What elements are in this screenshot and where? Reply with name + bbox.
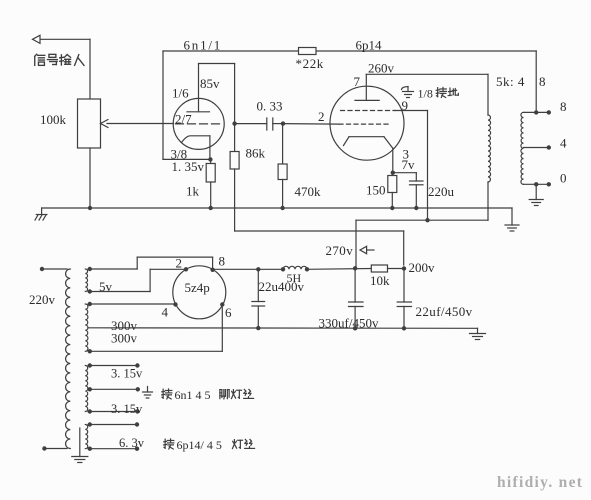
choke L1 5H — [281, 266, 309, 271]
ground chassis left — [35, 208, 47, 220]
pin label 9 — [402, 98, 409, 113]
node 150 ground — [390, 206, 394, 210]
svg-text:4: 4 — [560, 136, 567, 151]
svg-text:3. 15v: 3. 15v — [111, 402, 143, 416]
svg-text:260v: 260v — [368, 61, 395, 76]
pin 2 dot — [184, 267, 188, 271]
tube V2 control grid (dashed) — [339, 123, 389, 125]
wire 6.3v top — [88, 422, 140, 426]
wire screen to B+ line — [395, 111, 428, 221]
label 330uf/450v — [319, 316, 379, 331]
label 300v lower — [111, 331, 138, 346]
svg-text:6: 6 — [225, 305, 232, 320]
label 7v — [402, 157, 416, 172]
pin label 3/8 — [171, 147, 188, 162]
pin label 2 — [318, 109, 325, 124]
wire NFB to cathode — [163, 158, 210, 160]
potentiometer RP1 100k — [78, 99, 109, 208]
svg-text:22uf/450v: 22uf/450v — [416, 304, 473, 319]
label 5v — [99, 279, 113, 294]
label 200v — [409, 260, 436, 275]
label 1k — [186, 184, 200, 199]
svg-text:270v: 270v — [326, 243, 354, 258]
arrow 270v pointer — [360, 246, 374, 253]
label 3.15v lower — [111, 402, 143, 416]
svg-text:6n1 4 5: 6n1 4 5 — [175, 388, 211, 402]
ground heater CT symbol — [143, 387, 153, 399]
svg-text:6p14/ 4 5: 6p14/ 4 5 — [177, 438, 222, 452]
svg-text:22u400v: 22u400v — [259, 279, 305, 294]
label 220u — [428, 184, 455, 199]
label 6.3v — [119, 436, 145, 450]
ground bus right — [505, 225, 519, 231]
wire heater center tap — [88, 387, 140, 391]
label terminal 0 — [560, 171, 567, 186]
transformer T2 secondary winding — [521, 112, 524, 184]
wire main ground bus — [42, 208, 512, 225]
pin label 2 — [176, 256, 183, 271]
svg-text:2: 2 — [318, 109, 325, 124]
label 470k — [295, 184, 322, 199]
label 220v — [29, 292, 56, 307]
transformer T1 heater winding 3.15v — [85, 366, 88, 412]
wire mains bottom — [42, 446, 67, 450]
node 220u ground — [414, 206, 418, 210]
label 300v upper — [111, 318, 138, 333]
wire tap 0 — [524, 182, 552, 186]
label 接6p14/ 4 5灯丝 — [164, 438, 255, 452]
svg-text:9: 9 — [402, 98, 409, 113]
label terminal 4 — [560, 136, 567, 151]
label 6n1/1 — [184, 38, 223, 53]
wire 86k to 200v feed — [235, 169, 404, 265]
tube V2 plate — [355, 74, 379, 100]
wire mains top — [40, 267, 67, 271]
tube V1 plate — [187, 111, 210, 113]
svg-text:85v: 85v — [200, 76, 220, 91]
node 1k ground — [209, 206, 213, 210]
svg-text:5k: 4: 5k: 4 — [496, 74, 525, 89]
tube V1 cathode — [182, 136, 210, 160]
label 22uf/450v — [416, 304, 473, 319]
svg-text:7: 7 — [354, 74, 361, 89]
wire 5v bottom to pin2 — [88, 269, 186, 293]
label 150 — [366, 183, 386, 198]
transformer T1 6.3v winding — [85, 425, 87, 449]
wire 6.3v bottom — [88, 447, 140, 451]
label 260v — [368, 61, 395, 76]
wire heater top — [88, 363, 140, 367]
wire C1 to 6p14 grid — [283, 123, 339, 126]
svg-text:7v: 7v — [402, 157, 416, 172]
node cathode junction — [208, 157, 212, 161]
svg-text:300v: 300v — [111, 331, 138, 346]
node cathode 6p14 junction — [391, 171, 395, 175]
node 270v — [353, 266, 357, 270]
label 10k — [370, 273, 390, 288]
label 信号输入 (signal input) — [35, 54, 84, 65]
node 470k ground — [280, 206, 284, 210]
op tube V1 6n1 envelope — [173, 98, 224, 149]
transformer T1 HV winding — [85, 304, 88, 351]
svg-text:8: 8 — [539, 74, 546, 89]
svg-text:5z4p: 5z4p — [185, 280, 210, 295]
label 接6n1 4 5脚灯丝 — [162, 388, 254, 402]
wire plate node to C1 — [235, 123, 267, 125]
wire wiper to 6n1 grid — [107, 123, 174, 125]
svg-text:220v: 220v — [29, 292, 56, 307]
pin label 1/6 — [172, 86, 189, 101]
svg-text:1k: 1k — [186, 184, 200, 199]
svg-text:2/7: 2/7 — [175, 112, 192, 127]
resistor R6 *22k (feedback) — [299, 48, 317, 55]
svg-text:8: 8 — [560, 99, 567, 114]
label 1/8接地 — [418, 87, 459, 101]
label 5z4p — [185, 280, 210, 295]
capacitor C4 330uf450v — [349, 268, 364, 328]
svg-text:3. 15v: 3. 15v — [111, 367, 143, 381]
label 100k — [40, 112, 67, 127]
node C4 return — [353, 326, 357, 330]
label 86k — [246, 146, 266, 161]
svg-text:1/8: 1/8 — [418, 87, 433, 101]
svg-text:220u: 220u — [428, 184, 455, 199]
resistor R1 1k — [206, 159, 215, 208]
transformer T1 primary winding — [66, 269, 71, 449]
svg-text:6n1/1: 6n1/1 — [184, 38, 223, 53]
svg-text:6. 3v: 6. 3v — [119, 436, 145, 450]
label 22u400v — [259, 279, 305, 294]
label 5k: 4 8 — [496, 74, 546, 89]
svg-text:2: 2 — [176, 256, 183, 271]
wire V1 plate to node — [199, 64, 235, 112]
node C5 return — [402, 326, 406, 330]
tube V2 6p14 envelope — [330, 86, 404, 160]
resistor R3 470k — [278, 124, 287, 208]
svg-text:150: 150 — [366, 183, 386, 198]
label terminal 8 — [560, 99, 567, 114]
pin label 7 — [354, 74, 361, 89]
svg-text:6p14: 6p14 — [356, 38, 383, 53]
wire 5v top to pin8 — [88, 257, 213, 271]
wire input signal with arrow — [33, 35, 91, 99]
svg-text:10k: 10k — [370, 273, 390, 288]
wire V2 plate to OPT — [366, 74, 488, 115]
pin label 3 — [403, 147, 410, 162]
svg-text:1. 35v: 1. 35v — [172, 159, 205, 174]
capacitor C2 220u — [393, 173, 423, 208]
node C3 return — [256, 326, 260, 330]
transformer T1 5v winding — [85, 269, 87, 292]
wire B+ 270v to OPT primary — [356, 182, 488, 268]
ground 1/8 shield symbol — [402, 87, 414, 98]
svg-text:*22k: *22k — [296, 56, 324, 71]
wire HV top to pin4 — [88, 302, 177, 306]
svg-text:200v: 200v — [409, 260, 436, 275]
svg-text:hifidiy. net: hifidiy. net — [497, 474, 583, 491]
node screen junction on B+ — [425, 218, 429, 222]
label 85v — [200, 76, 220, 91]
label 3.15v upper — [111, 367, 143, 381]
wire heater bottom — [88, 409, 140, 413]
wire B+ from pin 8 — [213, 268, 283, 270]
pin label 4 — [162, 305, 169, 320]
wire tap 8 — [524, 110, 552, 114]
tube V1 grid (dashed) — [176, 123, 222, 125]
wire choke to 270v node — [307, 268, 371, 271]
svg-text:0. 33: 0. 33 — [257, 99, 283, 114]
pin 6 dot — [220, 302, 224, 306]
tube V3 5z4p envelope — [173, 266, 226, 319]
label 6p14 — [356, 38, 383, 53]
capacitor C3 22u400v — [252, 269, 265, 328]
node 200v — [402, 266, 406, 270]
svg-text:86k: 86k — [246, 146, 266, 161]
resistor R4 150 — [388, 173, 397, 208]
node C1 output junction — [281, 121, 285, 125]
wire NFB rail — [163, 51, 536, 159]
svg-text:0: 0 — [560, 171, 567, 186]
tube V2 cathode — [344, 137, 393, 173]
ground T1 core — [72, 428, 88, 463]
label 1.35v — [172, 159, 205, 174]
wire HV bottom to pin6 — [88, 305, 223, 354]
ground OPT secondary — [529, 184, 543, 205]
node C3 tap — [256, 267, 260, 271]
pin label 2/7 — [175, 112, 192, 127]
tube V2 screen grid (dashed) — [341, 110, 396, 112]
label 5H — [287, 271, 302, 285]
watermark hifidiy.net — [497, 474, 583, 491]
pin label 6 — [225, 305, 232, 320]
resistor R2 86k — [230, 152, 239, 170]
pin 8 dot — [210, 268, 214, 272]
label *22k — [296, 56, 324, 71]
pin label 8 — [219, 254, 226, 269]
label 270v — [326, 243, 354, 258]
svg-text:100k: 100k — [40, 112, 67, 127]
wire HV center tap return — [88, 327, 478, 330]
node pot ground — [88, 206, 92, 210]
node plate junction dot — [232, 121, 236, 125]
capacitor C1 0.33 — [267, 118, 283, 130]
wire plate node (top of 86k) — [234, 64, 236, 152]
svg-text:1/6: 1/6 — [172, 86, 189, 101]
pin 4 dot — [173, 302, 177, 306]
svg-text:5v: 5v — [99, 279, 113, 294]
resistor R5 10k — [371, 265, 387, 272]
wire tap 4 — [524, 145, 552, 149]
label 0.33 — [257, 99, 283, 114]
wire 10k to 200v node — [388, 268, 405, 270]
svg-text:8: 8 — [219, 254, 226, 269]
transformer T2 primary winding — [488, 115, 491, 182]
svg-text:470k: 470k — [295, 184, 322, 199]
svg-text:4: 4 — [162, 305, 169, 320]
capacitor C5 22uf450v — [397, 269, 411, 329]
ground return right — [470, 328, 486, 339]
